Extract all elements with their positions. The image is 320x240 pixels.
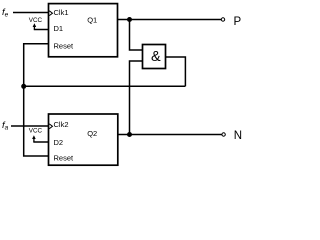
wire fe to Clk1 [13,12,48,14]
terminal P [221,18,224,21]
node Q1 junction [127,17,132,22]
svg-text:Reset: Reset [54,153,75,162]
svg-text:D2: D2 [54,138,64,147]
wire fa to Clk2 [11,125,48,127]
wire Q2 to AND input 2 [130,61,143,135]
wire Q1 to P [117,19,221,21]
svg-text:VCC: VCC [29,128,43,135]
wire VCC to D1 [34,29,48,31]
svg-text:Clk1: Clk1 [54,8,69,17]
wire reset net horizontal [24,85,186,87]
wire Reset1 to reset net [24,44,48,156]
svg-text:Reset: Reset [54,41,75,50]
svg-text:Q1: Q1 [87,15,97,24]
svg-text:D1: D1 [54,24,64,33]
svg-text:VCC: VCC [29,17,43,24]
svg-text:e: e [5,11,9,18]
svg-text:Q2: Q2 [87,129,97,138]
svg-text:N: N [234,130,242,142]
flip-flop U2 box [49,114,118,165]
svg-text:P: P [234,16,242,28]
node reset junction [21,84,26,89]
wire Q2 to N [118,134,222,136]
svg-text:Clk2: Clk2 [54,120,69,129]
clock input triangle U1 [49,11,52,16]
wire VCC to D2 [33,141,48,143]
flip-flop U1 box [49,4,118,57]
clock input triangle U2 [49,124,52,129]
svg-text:a: a [5,125,9,132]
node Q2 junction [127,132,132,137]
AND gate U3 box [143,45,166,69]
terminal N [222,133,225,136]
wire AND output [166,57,186,86]
wire Q1 to AND input 1 [130,20,143,51]
svg-text:&: & [151,49,161,65]
